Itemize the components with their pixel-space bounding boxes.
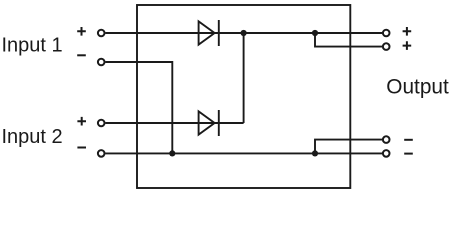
svg-text:Input 1: Input 1 bbox=[2, 35, 63, 57]
svg-text:Output: Output bbox=[386, 76, 449, 99]
svg-text:Input 2: Input 2 bbox=[2, 126, 63, 148]
